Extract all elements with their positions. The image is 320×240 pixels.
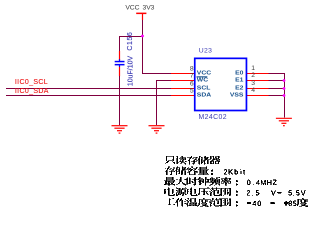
svg-text:IIC0_SDA: IIC0_SDA <box>15 88 49 95</box>
IC U23 body <box>195 58 247 110</box>
svg-text:E0: E0 <box>235 70 244 76</box>
pin 2 stub E1 <box>246 80 269 82</box>
node junction E1/rail <box>283 79 286 82</box>
svg-text:IIC0_SCL: IIC0_SCL <box>15 79 48 86</box>
wire VSS jog <box>269 95 285 97</box>
svg-text:4: 4 <box>251 87 255 94</box>
svg-text:SDA: SDA <box>197 92 212 98</box>
wire E2 jog <box>269 88 285 90</box>
wire IIC0_SCL bus <box>6 88 171 90</box>
capacitor C156 top lead <box>119 51 120 60</box>
pin 3 stub E2 <box>246 88 269 90</box>
svg-text:1: 1 <box>251 65 255 72</box>
svg-text:7: 7 <box>190 72 194 79</box>
svg-text:U23: U23 <box>199 48 213 55</box>
svg-text:E2: E2 <box>235 85 244 91</box>
wire IIC0_SDA bus <box>6 95 171 97</box>
wire VCC vertical from power symbol to pin 8 row <box>143 20 172 74</box>
pin WC overline <box>197 76 208 77</box>
svg-text:6: 6 <box>190 80 194 87</box>
node junction E2/rail <box>283 87 286 90</box>
wire capacitor to ground <box>119 76 121 125</box>
svg-text:M24C02: M24C02 <box>199 114 227 121</box>
capacitor C156 bottom stub <box>119 65 120 67</box>
pin 7 stub WC <box>171 80 195 82</box>
svg-text:8: 8 <box>190 65 194 72</box>
svg-text:VCC: VCC <box>197 70 212 76</box>
svg-text:5: 5 <box>190 87 194 94</box>
capacitor C156 bottom plate <box>115 64 125 66</box>
node junction VSS/rail <box>283 94 286 97</box>
svg-text:WC: WC <box>197 77 209 83</box>
node junction at VCC branch <box>141 35 144 38</box>
pin 5 stub SDA <box>171 95 195 97</box>
power symbol VCC_3V3 stem <box>142 14 143 21</box>
annotation text block (Chinese specs) dark strokes <box>164 156 308 207</box>
svg-text:VSS: VSS <box>230 92 244 98</box>
svg-text:10uF/10V: 10uF/10V <box>127 55 134 86</box>
pin 8 stub VCC <box>171 73 195 75</box>
svg-text:C156: C156 <box>127 32 134 51</box>
wire branch to capacitor C156 <box>120 37 143 52</box>
pin 6 stub SCL <box>171 88 195 90</box>
ground under capacitor <box>112 126 128 133</box>
capacitor C156 top stub <box>119 59 120 61</box>
svg-text:VCC 3V3: VCC 3V3 <box>125 4 154 11</box>
svg-text:3: 3 <box>251 80 255 87</box>
wire E0 jog to ground rail <box>269 74 285 118</box>
svg-text:E1: E1 <box>235 77 244 83</box>
svg-text:SCL: SCL <box>197 85 211 91</box>
ground under WC wire <box>149 126 165 133</box>
capacitor C156 bottom lead <box>119 67 120 76</box>
wire WC pin to ground <box>157 81 172 125</box>
ground right rail <box>276 118 292 125</box>
power symbol VCC_3V3 bar <box>136 13 146 15</box>
pin 1 stub E0 <box>246 73 269 75</box>
capacitor C156 top plate <box>115 61 125 63</box>
pin 4 stub VSS <box>246 95 269 97</box>
wire E1 jog <box>269 80 285 82</box>
svg-text:2: 2 <box>251 72 255 79</box>
